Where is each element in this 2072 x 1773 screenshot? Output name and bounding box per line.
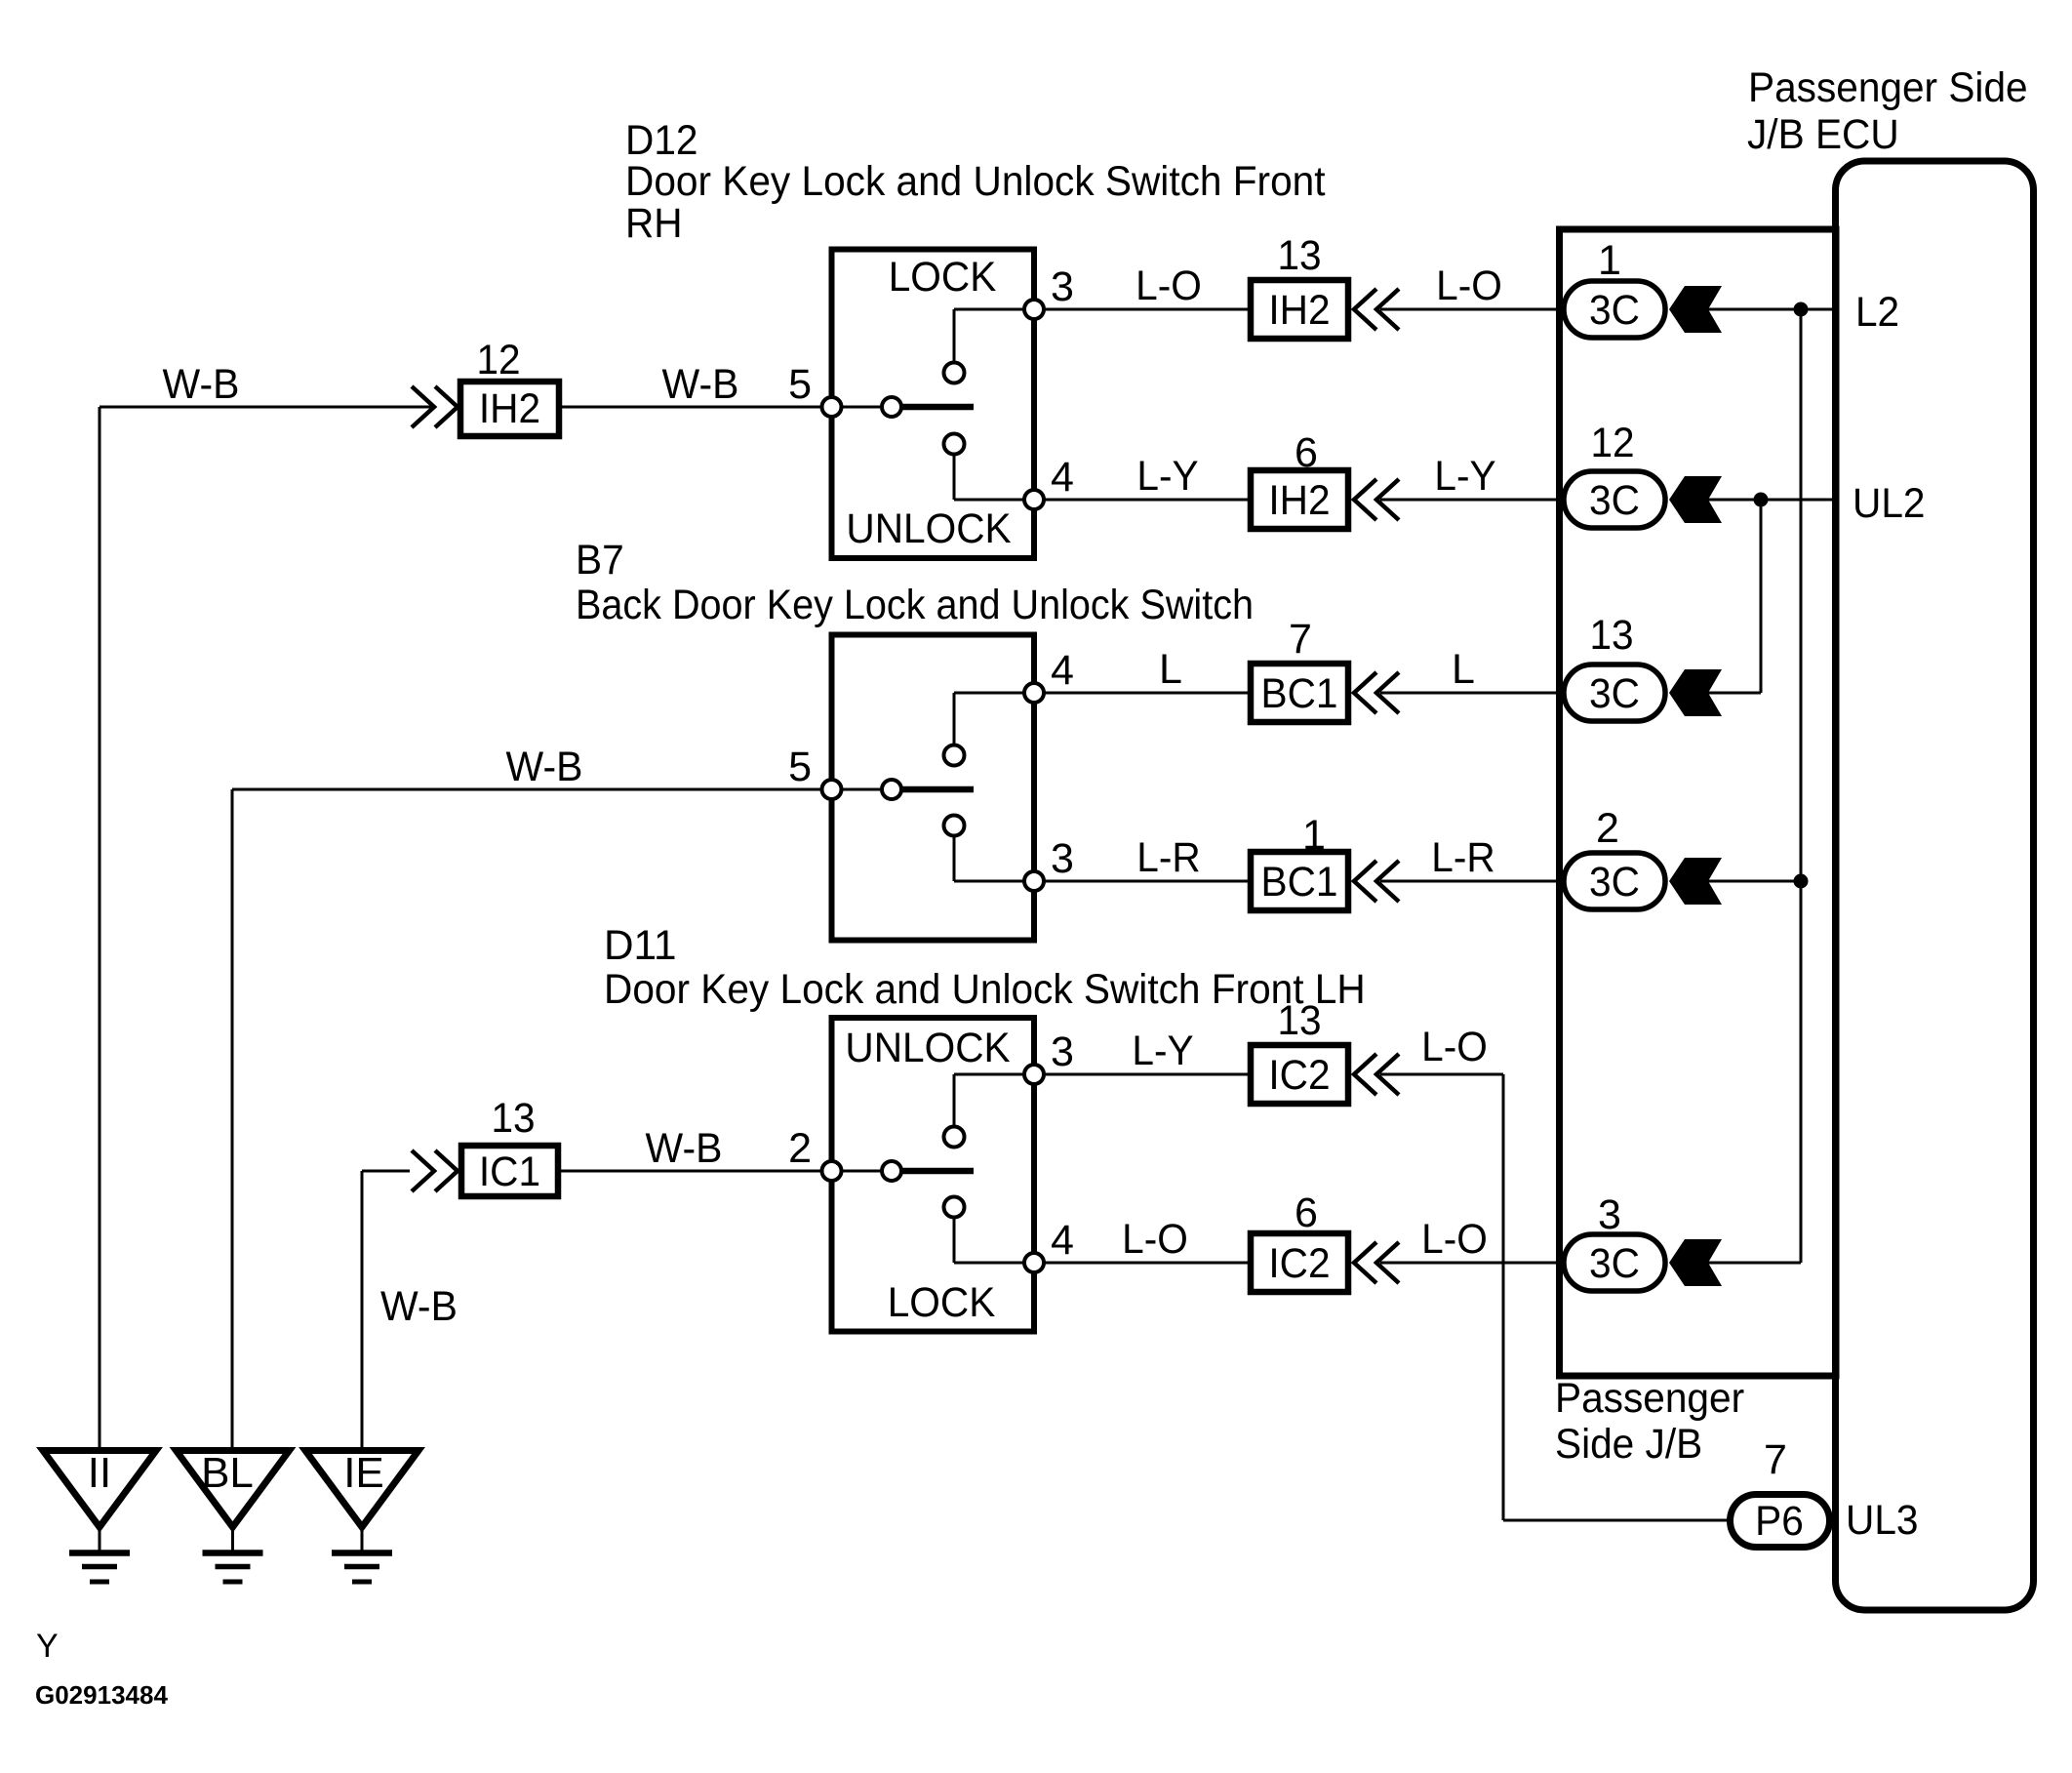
wire D11 pivot to common: [841, 1170, 882, 1173]
arrows into IC1 (13): [412, 1150, 434, 1191]
wire D11 upper contact to pin 3: [953, 1074, 956, 1127]
wire to P6 connector: [1503, 1519, 1733, 1522]
connector 3C oval row 3: [1564, 665, 1665, 721]
connector P6 oval: [1731, 1495, 1830, 1548]
svg-text:3: 3: [1051, 263, 1074, 310]
node junction dot L2: [1794, 302, 1809, 317]
connector 3C oval row 4: [1564, 853, 1665, 909]
wire IH2 to 3C row 2: [1380, 499, 1561, 502]
node D12 pin 5: [822, 397, 842, 417]
wire 3C row 2 to ECU UL2: [1706, 499, 1836, 502]
svg-text:LOCK: LOCK: [888, 1279, 996, 1326]
svg-text:Back Door Key Lock and Unlock: Back Door Key Lock and Unlock Switch: [576, 582, 1254, 628]
svg-text:13: 13: [491, 1095, 535, 1142]
node D12 pin 4: [1024, 490, 1044, 509]
switch B7 lower contact circle: [944, 816, 965, 836]
svg-text:L-Y: L-Y: [1434, 453, 1495, 500]
svg-text:Passenger Side: Passenger Side: [1748, 64, 2028, 111]
ECU Passenger Side J/B ECU body: [1836, 161, 2034, 1610]
svg-text:4: 4: [1051, 1217, 1074, 1264]
svg-text:W-B: W-B: [380, 1283, 458, 1330]
wire 3C row 6 to riser: [1706, 1262, 1801, 1265]
connector 3C oval row 2: [1564, 471, 1665, 528]
junction chevron row 1: [1669, 286, 1722, 333]
svg-text:IC2: IC2: [1268, 1240, 1330, 1287]
ground IE: [305, 1451, 418, 1528]
wire 3C row 4 to junction: [1706, 880, 1801, 883]
svg-text:3C: 3C: [1589, 477, 1640, 524]
arrows BC1 row 4: [1354, 861, 1376, 902]
switch D11 UNLOCK contact circle: [944, 1127, 965, 1148]
svg-text:7: 7: [1289, 616, 1312, 663]
connector IC2 box row 5: [1251, 1045, 1348, 1104]
svg-text:UL2: UL2: [1853, 480, 1926, 527]
connector 3C oval row 6: [1564, 1234, 1665, 1291]
svg-text:4: 4: [1051, 647, 1074, 694]
svg-text:3: 3: [1051, 835, 1074, 882]
switch D11 lever: [901, 1168, 974, 1175]
svg-text:3C: 3C: [1589, 287, 1640, 334]
svg-text:13: 13: [1277, 232, 1321, 279]
svg-text:L: L: [1159, 646, 1182, 693]
svg-text:Y: Y: [36, 1628, 59, 1665]
wire vertical to ground IE: [361, 1171, 364, 1447]
svg-text:L: L: [1452, 646, 1475, 693]
wire IC2 to 3C row 6: [1380, 1262, 1561, 1265]
wire IC2 row 5 to down-corner: [1380, 1073, 1503, 1076]
svg-text:II: II: [88, 1449, 111, 1497]
svg-text:L-Y: L-Y: [1136, 453, 1198, 500]
wire B7 upper contact to pin 4: [953, 693, 956, 745]
svg-text:D11: D11: [604, 922, 677, 969]
svg-text:4: 4: [1051, 454, 1074, 501]
svg-text:L-O: L-O: [1122, 1216, 1188, 1263]
svg-text:L2: L2: [1855, 289, 1899, 336]
wire riser UL2 to row 3: [1760, 500, 1763, 693]
switch D12 body: [832, 250, 1035, 559]
svg-text:13: 13: [1277, 997, 1321, 1044]
wire 3C row 1 to ECU L2: [1706, 308, 1836, 311]
junction chevron row 6: [1669, 1239, 1722, 1286]
connector IC1 (13) box: [461, 1146, 558, 1196]
connector IH2 box row 1: [1251, 280, 1348, 339]
node junction dot UL2: [1754, 493, 1769, 507]
svg-text:L-O: L-O: [1136, 262, 1202, 309]
switch D11 body: [832, 1018, 1035, 1332]
wire D11 lower contact to pin 4: [953, 1218, 956, 1264]
svg-text:G02913484: G02913484: [35, 1680, 168, 1710]
wire vertical to ground II: [99, 407, 101, 1447]
wire from ground IE up to IC1 level: [362, 1170, 410, 1173]
svg-text:L-O: L-O: [1436, 262, 1502, 309]
wire W-B from ground BL to B7 pin 5: [232, 788, 821, 791]
switch B7 upper contact circle: [944, 745, 965, 766]
wire drop to P6: [1502, 1074, 1505, 1520]
svg-text:IC2: IC2: [1268, 1052, 1330, 1099]
connector BC1 box row 4: [1251, 852, 1348, 910]
svg-text:L-R: L-R: [1136, 834, 1200, 881]
wire 3C row 3 to riser: [1706, 692, 1761, 695]
switch D12 inner contact circle: [882, 397, 901, 417]
svg-text:6: 6: [1295, 1189, 1318, 1236]
connector IH2 box row 2: [1251, 470, 1348, 529]
wire W-B from ground II to IH2: [100, 406, 434, 409]
svg-text:W-B: W-B: [662, 361, 739, 408]
wire D12 LOCK contact to pin 3: [953, 309, 956, 363]
wire D12 UNLOCK contact to pin 4: [953, 455, 956, 501]
node junction dot row 4: [1794, 874, 1809, 889]
arrows IC2 row 5: [1354, 1054, 1376, 1095]
switch D11 LOCK contact circle: [944, 1197, 965, 1218]
switch D12 UNLOCK contact circle: [944, 434, 965, 455]
svg-text:2: 2: [788, 1125, 812, 1172]
svg-text:13: 13: [1589, 612, 1633, 659]
switch B7 lever: [901, 786, 974, 793]
svg-text:BC1: BC1: [1261, 859, 1338, 906]
svg-text:W-B: W-B: [506, 744, 583, 790]
svg-text:7: 7: [1764, 1436, 1787, 1483]
node D11 pin 3: [1024, 1065, 1044, 1084]
junction chevron row 3: [1669, 669, 1722, 716]
wire IH2 to D12 pin 5: [559, 406, 821, 409]
svg-text:5: 5: [788, 361, 812, 408]
connector BC1 box row 3: [1251, 664, 1348, 722]
wire D12 pivot to common: [841, 406, 882, 409]
svg-text:2: 2: [1596, 805, 1619, 852]
arrows BC1 row 3: [1354, 672, 1376, 713]
svg-text:RH: RH: [625, 200, 683, 247]
svg-text:L-O: L-O: [1421, 1024, 1488, 1070]
svg-text:3: 3: [1598, 1191, 1621, 1238]
switch D11 inner contact circle: [882, 1161, 901, 1181]
svg-text:IH2: IH2: [1268, 477, 1330, 524]
ground BL: [177, 1451, 290, 1528]
svg-text:IE: IE: [343, 1449, 384, 1497]
node D11 pin 4: [1024, 1253, 1044, 1272]
wire vertical to ground BL: [231, 789, 234, 1447]
junction chevron row 2: [1669, 476, 1722, 523]
svg-text:3C: 3C: [1589, 1240, 1640, 1287]
node D12 pin 3: [1024, 300, 1044, 319]
svg-text:W-B: W-B: [163, 361, 240, 408]
node B7 pin 5: [822, 780, 842, 799]
wire IH2 to 3C row 1: [1380, 308, 1561, 311]
svg-text:W-B: W-B: [646, 1125, 723, 1172]
svg-text:IC1: IC1: [479, 1148, 540, 1195]
svg-text:L-R: L-R: [1431, 834, 1494, 881]
arrows into IH2 (12): [412, 386, 434, 427]
svg-text:L-Y: L-Y: [1132, 1028, 1193, 1074]
node B7 pin 4: [1024, 683, 1044, 703]
svg-text:Side J/B: Side J/B: [1555, 1421, 1702, 1468]
svg-text:UNLOCK: UNLOCK: [846, 505, 1012, 552]
wire row 2: switch pin to IH2: [1044, 499, 1249, 502]
svg-text:UL3: UL3: [1846, 1497, 1919, 1544]
svg-text:1: 1: [1302, 812, 1326, 859]
svg-text:3C: 3C: [1589, 859, 1640, 906]
node D11 pin 2: [822, 1161, 842, 1181]
arrows IH2 row 2: [1354, 479, 1376, 520]
svg-text:6: 6: [1295, 429, 1318, 476]
svg-text:BL: BL: [201, 1449, 254, 1497]
wire row 5: switch pin to IC2: [1044, 1073, 1249, 1076]
svg-text:3C: 3C: [1589, 670, 1640, 717]
svg-text:5: 5: [788, 744, 812, 790]
switch D12 lever: [901, 404, 974, 411]
svg-text:Passenger: Passenger: [1555, 1375, 1744, 1422]
wire row 3: switch pin to BC1: [1044, 692, 1249, 695]
connector IC2 box row 6: [1251, 1233, 1348, 1292]
svg-text:BC1: BC1: [1261, 670, 1338, 717]
switch B7 body: [832, 635, 1035, 941]
svg-text:LOCK: LOCK: [889, 254, 997, 301]
wire row 6: switch pin to IC2: [1044, 1262, 1249, 1265]
wire B7 lower contact to pin 3: [953, 836, 956, 882]
wire row 4: switch pin to BC1: [1044, 880, 1249, 883]
switch B7 inner contact circle: [882, 780, 901, 799]
ground II: [43, 1451, 156, 1528]
svg-text:IH2: IH2: [1268, 287, 1330, 334]
wire BC1 to 3C row 4: [1380, 880, 1561, 883]
svg-text:P6: P6: [1755, 1498, 1804, 1545]
svg-text:J/B ECU: J/B ECU: [1747, 111, 1899, 158]
switch D12 LOCK contact circle: [944, 363, 965, 383]
svg-text:D12: D12: [625, 117, 698, 164]
connector IH2 (12) box: [460, 382, 559, 436]
svg-text:UNLOCK: UNLOCK: [845, 1025, 1011, 1071]
junction chevron row 4: [1669, 858, 1722, 905]
wire B7 pivot to common: [841, 788, 882, 791]
wire IC1 to D11 pin 2: [558, 1170, 821, 1173]
svg-text:Door Key Lock and Unlock Switc: Door Key Lock and Unlock Switch Front: [625, 158, 1326, 205]
svg-text:IH2: IH2: [479, 385, 540, 432]
svg-text:12: 12: [476, 337, 520, 383]
Passenger Side J/B block: [1560, 229, 1837, 1376]
svg-text:1: 1: [1598, 237, 1621, 284]
connector 3C oval row 1: [1564, 281, 1665, 338]
wire riser L2 to row 6: [1800, 309, 1803, 1263]
arrows IC2 row 6: [1354, 1242, 1376, 1283]
arrows IH2 row 1: [1354, 289, 1376, 330]
svg-text:Door Key Lock and Unlock Switc: Door Key Lock and Unlock Switch Front LH: [604, 966, 1366, 1013]
svg-text:L-O: L-O: [1421, 1216, 1488, 1263]
svg-text:12: 12: [1590, 420, 1634, 466]
wire row 1: switch pin to IH2: [1044, 308, 1249, 311]
svg-text:3: 3: [1051, 1028, 1074, 1075]
node B7 pin 3: [1024, 871, 1044, 891]
wire BC1 to 3C row 3: [1380, 692, 1561, 695]
svg-text:B7: B7: [576, 537, 624, 584]
